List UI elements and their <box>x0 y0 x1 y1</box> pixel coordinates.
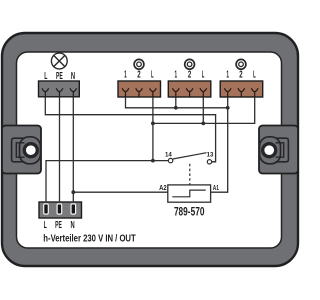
relay actuation dashed link <box>189 164 191 185</box>
svg-text:L: L <box>44 220 47 231</box>
junction L bus at X1 riser <box>151 122 155 126</box>
svg-text:13: 13 <box>207 151 214 158</box>
svg-text:1: 1 <box>124 69 127 80</box>
svg-text:2: 2 <box>239 69 242 80</box>
wire N riser <box>72 97 74 202</box>
right mounting latch <box>259 126 298 174</box>
contact 14 terminal circle <box>168 158 172 162</box>
terminal block X2 (1 2 L) <box>168 81 211 97</box>
switch blade <box>173 153 207 159</box>
label L PE N (lamp output block) <box>44 71 75 82</box>
svg-text:2: 2 <box>188 69 191 80</box>
svg-text:N: N <box>71 220 75 231</box>
terminal block X3 (1 2 L) <box>220 81 263 97</box>
svg-text:1: 1 <box>175 69 178 80</box>
terminal block lamp output L PE N <box>39 81 80 97</box>
svg-text:L: L <box>202 69 205 80</box>
screw indicator over terminal block X2 <box>185 59 195 69</box>
junction mains L / L bus riser <box>151 159 155 163</box>
screw indicator over terminal block X3 <box>236 59 246 69</box>
wire mains L to contact 14 <box>46 161 168 202</box>
wire contact 13 stub <box>212 161 216 163</box>
wire coil A1 from block X3 terminal 1 <box>211 97 228 192</box>
wire 1 bus <box>126 97 228 108</box>
svg-text:A1: A1 <box>213 183 220 192</box>
wire lamp L from contact 13 <box>45 97 215 162</box>
svg-text:PE: PE <box>55 220 62 231</box>
relay coil U1 box <box>168 185 211 202</box>
enclosure interior <box>17 52 282 248</box>
terminal block X1 (1 2 L) <box>118 81 161 97</box>
wire A2 feed <box>73 191 168 193</box>
left mounting latch <box>2 126 41 174</box>
svg-text:14: 14 <box>165 151 172 158</box>
wire L riser block X2 <box>202 97 204 123</box>
junction 1 bus at X2 riser <box>174 106 178 110</box>
terminal block mains input L PE N <box>39 202 82 218</box>
relay coil impulse symbol <box>172 190 205 197</box>
wire L riser block X1 <box>152 97 154 161</box>
svg-text:1: 1 <box>226 69 229 80</box>
label L PE N (mains input) <box>44 220 75 231</box>
label 1 2 L (block X1) <box>124 69 154 80</box>
svg-text:2: 2 <box>137 69 140 80</box>
label 1 2 L (block X2) <box>175 69 205 80</box>
wire PE riser <box>59 97 61 202</box>
junction L bus at X2 riser <box>201 122 205 126</box>
junction 1 bus at X3 riser <box>226 106 230 110</box>
svg-text:L: L <box>253 69 256 80</box>
screw indicator over terminal block X1 <box>134 59 144 69</box>
wire 1 riser block X2 <box>175 97 177 108</box>
svg-text:h-Verteiler 230 V IN / OUT: h-Verteiler 230 V IN / OUT <box>43 234 136 245</box>
lamp symbol <box>51 53 67 69</box>
wire L bus <box>153 97 255 123</box>
svg-text:789-570: 789-570 <box>174 205 205 219</box>
junction N to A2 <box>71 190 75 194</box>
label 1 2 L (block X3) <box>226 69 255 80</box>
contact 13 terminal circle <box>207 160 211 164</box>
svg-text:L: L <box>151 69 154 80</box>
enclosure body <box>2 33 298 266</box>
svg-text:A2: A2 <box>159 183 167 192</box>
